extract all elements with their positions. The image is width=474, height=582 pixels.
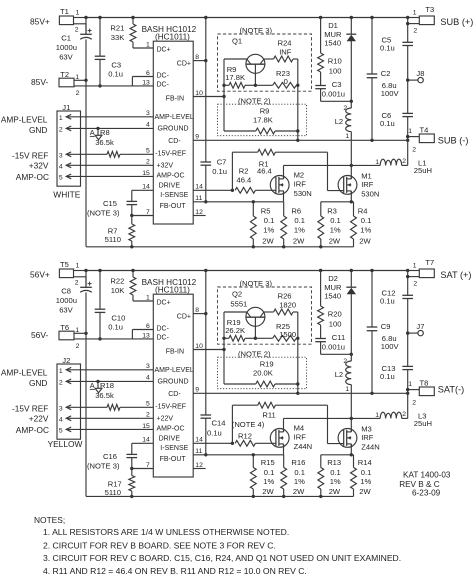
svg-text:5: 5 bbox=[59, 175, 63, 182]
svg-text:AMP-LEVEL: AMP-LEVEL bbox=[1, 367, 48, 377]
svg-text:2W: 2W bbox=[293, 487, 305, 496]
wire: CD-/output line to output terminal bbox=[193, 392, 409, 395]
svg-text:12: 12 bbox=[195, 462, 203, 469]
svg-text:12: 12 bbox=[195, 209, 203, 216]
svg-text:R16: R16 bbox=[291, 458, 305, 467]
resistor R15 0.1 1% 2W bbox=[250, 455, 274, 497]
svg-text:FB-IN: FB-IN bbox=[166, 349, 184, 356]
svg-text:2. CIRCUIT FOR REV B BOARD.: 2. CIRCUIT FOR REV B BOARD. SEE NOTE 3 F… bbox=[43, 540, 276, 550]
wire: J pin2 GND to IC pin 4 bbox=[66, 380, 153, 383]
svg-text:Q2: Q2 bbox=[232, 290, 242, 299]
resistor R1 46.4 (gate of M1) bbox=[232, 149, 343, 190]
inductor L2 bbox=[335, 354, 352, 418]
svg-text:63V: 63V bbox=[59, 53, 73, 62]
svg-text:1%: 1% bbox=[263, 225, 274, 234]
wire: switch node to inductor bbox=[284, 417, 381, 432]
resistor R3 0.1 1% 2W bbox=[318, 202, 341, 247]
wire: positive rail bbox=[84, 16, 409, 19]
wire: J pin1 AMP-LEVEL to IC pin 3 bbox=[66, 116, 153, 118]
svg-text:-15V-REF: -15V-REF bbox=[155, 404, 186, 411]
resistor R6 0.1 1% 2W bbox=[281, 202, 305, 247]
svg-text:DC+: DC+ bbox=[157, 47, 171, 54]
svg-text:5110: 5110 bbox=[105, 488, 121, 497]
svg-text:2: 2 bbox=[343, 105, 347, 112]
svg-text:FB-OUT: FB-OUT bbox=[160, 456, 187, 463]
svg-text:R18: R18 bbox=[100, 381, 114, 390]
svg-text:A: A bbox=[90, 381, 95, 390]
wire: FB-OUT pin 7 stub bbox=[132, 215, 154, 217]
svg-text:2W: 2W bbox=[262, 236, 274, 245]
svg-text:C3: C3 bbox=[332, 80, 342, 89]
svg-text:GROUND: GROUND bbox=[158, 379, 189, 386]
svg-text:9: 9 bbox=[195, 134, 199, 141]
svg-text:2W: 2W bbox=[329, 487, 341, 496]
svg-text:1: 1 bbox=[413, 263, 417, 270]
svg-text:SUB (-): SUB (-) bbox=[438, 135, 469, 145]
inductor L1 25uH bbox=[375, 140, 432, 175]
svg-text:100V: 100V bbox=[381, 342, 400, 351]
svg-text:7: 7 bbox=[146, 462, 150, 469]
svg-text:J8: J8 bbox=[416, 69, 424, 78]
svg-text:+22V: +22V bbox=[157, 416, 174, 423]
connector J2 bbox=[57, 356, 81, 439]
svg-text:2W: 2W bbox=[359, 487, 371, 496]
svg-text:WHITE: WHITE bbox=[53, 189, 80, 199]
IC U2 BASH HC1012 (HC1011) bbox=[142, 278, 203, 477]
resistor R4 0.1 1% 2W bbox=[351, 202, 372, 247]
svg-text:0: 0 bbox=[284, 77, 288, 86]
svg-text:14: 14 bbox=[142, 184, 150, 191]
svg-text:20.0K: 20.0K bbox=[253, 369, 273, 378]
capacitor C11 0.001u bbox=[315, 333, 351, 355]
svg-text:2: 2 bbox=[413, 280, 417, 287]
svg-text:5551: 5551 bbox=[230, 299, 247, 308]
svg-text:1: 1 bbox=[375, 159, 379, 166]
svg-text:GND: GND bbox=[29, 125, 47, 135]
svg-text:10K: 10K bbox=[111, 286, 125, 295]
wire: FB-OUT pin 12 stub bbox=[193, 215, 205, 217]
transistor Q1 bbox=[224, 37, 274, 86]
svg-text:M1: M1 bbox=[361, 171, 372, 180]
svg-text:0.1u: 0.1u bbox=[108, 322, 123, 331]
svg-text:SAT(-): SAT(-) bbox=[438, 384, 464, 394]
wire: negative rail down to ground rail bbox=[85, 80, 87, 247]
svg-text:0.1: 0.1 bbox=[264, 216, 275, 225]
svg-text:46.4: 46.4 bbox=[237, 176, 252, 185]
title block KAT 1400-03 bbox=[399, 470, 451, 497]
svg-text:2: 2 bbox=[59, 380, 63, 387]
svg-text:FB-IN: FB-IN bbox=[166, 96, 184, 103]
svg-text:2: 2 bbox=[413, 27, 417, 34]
svg-text:INF: INF bbox=[279, 48, 292, 57]
svg-text:R3: R3 bbox=[327, 206, 337, 215]
svg-text:1000u: 1000u bbox=[56, 43, 77, 52]
terminal T2 (85V-) bbox=[59, 70, 88, 97]
svg-text:2W: 2W bbox=[293, 236, 305, 245]
svg-text:0.1u: 0.1u bbox=[380, 296, 395, 305]
wire: DRIVE pin 14 line bbox=[193, 189, 234, 192]
svg-text:AMP-OC: AMP-OC bbox=[157, 173, 185, 180]
svg-text:T8: T8 bbox=[420, 379, 429, 388]
resistor R17 5110 bbox=[105, 469, 135, 499]
svg-text:NOTES;: NOTES; bbox=[34, 515, 65, 525]
svg-text:4: 4 bbox=[146, 374, 150, 381]
svg-text:R24: R24 bbox=[278, 38, 292, 47]
svg-text:9: 9 bbox=[195, 387, 199, 394]
svg-text:10: 10 bbox=[195, 90, 203, 97]
inductor L2 bbox=[335, 101, 352, 165]
svg-text:(NOTE 2): (NOTE 2) bbox=[238, 349, 271, 358]
svg-text:C9: C9 bbox=[381, 322, 391, 331]
capacitor C15 (NOTE 3) bbox=[87, 190, 153, 217]
svg-text:0.1: 0.1 bbox=[264, 468, 275, 477]
svg-text:0.1: 0.1 bbox=[294, 216, 305, 225]
svg-text:2: 2 bbox=[412, 399, 416, 406]
resistor R11 None (gate of M3) bbox=[232, 402, 343, 443]
transistor M2 530N bbox=[270, 171, 311, 199]
svg-text:(NOTE 3): (NOTE 3) bbox=[87, 208, 120, 217]
wire: I-SENSE pin 11 line bbox=[193, 191, 283, 204]
svg-text:1540: 1540 bbox=[324, 39, 341, 48]
svg-text:AMP-LEVEL: AMP-LEVEL bbox=[155, 114, 194, 121]
svg-text:DC+: DC+ bbox=[157, 300, 171, 307]
dashed box (NOTE 3) bbox=[218, 26, 312, 91]
svg-text:0.1: 0.1 bbox=[361, 216, 372, 225]
svg-text:17.8K: 17.8K bbox=[253, 116, 273, 125]
terminal T4 (SUB (-)) bbox=[406, 126, 434, 154]
svg-text:2: 2 bbox=[76, 90, 80, 97]
svg-text:530N: 530N bbox=[361, 189, 379, 198]
svg-text:-15V REF: -15V REF bbox=[12, 403, 48, 413]
svg-text:C7: C7 bbox=[217, 158, 227, 167]
inductor L3 25uH bbox=[375, 393, 432, 428]
svg-text:R22: R22 bbox=[110, 276, 124, 285]
svg-text:R21: R21 bbox=[110, 23, 124, 32]
svg-text:C8: C8 bbox=[61, 286, 71, 295]
svg-text:M2: M2 bbox=[294, 171, 305, 180]
svg-text:8: 8 bbox=[195, 307, 199, 314]
svg-text:4: 4 bbox=[59, 416, 63, 423]
diode D2 MUR 1540 bbox=[324, 271, 356, 356]
capacitor C7 0.1u bbox=[193, 18, 227, 204]
svg-text:0.1u: 0.1u bbox=[207, 429, 222, 438]
terminal T6 (56V-) bbox=[59, 323, 88, 350]
svg-text:A: A bbox=[90, 128, 95, 137]
svg-text:5: 5 bbox=[146, 401, 150, 408]
svg-text:2: 2 bbox=[412, 146, 416, 153]
svg-text:2: 2 bbox=[402, 158, 406, 165]
svg-text:2: 2 bbox=[146, 412, 150, 419]
svg-text:-15V-REF: -15V-REF bbox=[155, 151, 186, 158]
svg-text:R10: R10 bbox=[328, 57, 342, 66]
svg-text:6-23-09: 6-23-09 bbox=[412, 489, 441, 498]
wire: negative rail down to ground rail bbox=[85, 333, 87, 496]
svg-text:100: 100 bbox=[329, 320, 342, 329]
svg-text:(NOTE 3): (NOTE 3) bbox=[240, 26, 273, 35]
svg-text:C14: C14 bbox=[212, 419, 226, 428]
svg-text:+22V: +22V bbox=[29, 414, 49, 424]
svg-text:2: 2 bbox=[59, 127, 63, 134]
svg-text:1%: 1% bbox=[360, 225, 371, 234]
transistor M4 Z44N bbox=[270, 424, 312, 452]
svg-text:63V: 63V bbox=[59, 306, 73, 315]
svg-text:L2: L2 bbox=[335, 117, 343, 126]
svg-text:1: 1 bbox=[408, 381, 412, 388]
svg-text:Q1: Q1 bbox=[232, 37, 242, 46]
wire: J pin5 AMP-OC to IC pin 15 bbox=[66, 175, 153, 177]
svg-text:11: 11 bbox=[195, 448, 202, 455]
svg-text:14: 14 bbox=[195, 184, 203, 191]
svg-text:C15: C15 bbox=[103, 199, 117, 208]
wire: negative rail to IC pins 6/13 bbox=[74, 330, 153, 339]
svg-text:M3: M3 bbox=[361, 424, 372, 433]
resistor R13 0.1 1% 2W bbox=[318, 455, 341, 497]
svg-text:5110: 5110 bbox=[105, 235, 121, 244]
svg-text:IRF: IRF bbox=[361, 180, 374, 189]
wire: FB-OUT pin 7 stub bbox=[132, 468, 154, 470]
svg-text:0.1: 0.1 bbox=[330, 216, 341, 225]
svg-text:1: 1 bbox=[345, 386, 349, 393]
capacitor C1 1000u 63V bbox=[56, 18, 92, 81]
wire: M-source sense line right bbox=[321, 444, 354, 457]
svg-text:1%: 1% bbox=[330, 225, 341, 234]
svg-text:DC-: DC- bbox=[157, 82, 170, 89]
svg-text:GROUND: GROUND bbox=[158, 126, 189, 133]
svg-text:1: 1 bbox=[146, 41, 150, 48]
capacitor C13 0.1u bbox=[380, 364, 413, 381]
svg-text:1: 1 bbox=[375, 412, 379, 419]
svg-text:2: 2 bbox=[75, 27, 79, 34]
svg-text:T7: T7 bbox=[425, 258, 434, 267]
svg-text:4: 4 bbox=[146, 121, 150, 128]
svg-text:R8: R8 bbox=[100, 128, 110, 137]
svg-text:1500: 1500 bbox=[279, 330, 296, 339]
svg-text:(NOTE 3): (NOTE 3) bbox=[240, 279, 273, 288]
resistor R18 36.5k in -15V REF line bbox=[66, 381, 153, 410]
svg-text:15: 15 bbox=[142, 170, 150, 177]
terminal T7 (SAT (+)) bbox=[406, 258, 434, 287]
svg-text:IRF: IRF bbox=[361, 433, 374, 442]
wire: output vertical bbox=[407, 46, 409, 141]
svg-text:SAT (+): SAT (+) bbox=[440, 270, 471, 280]
svg-text:1: 1 bbox=[76, 262, 80, 269]
resistor R23 0 (NOTE 3) bbox=[255, 69, 297, 88]
svg-text:3: 3 bbox=[59, 405, 63, 412]
svg-text:0.1u: 0.1u bbox=[212, 167, 227, 176]
resistor R22 10K bbox=[110, 271, 153, 302]
test point J8 bbox=[406, 69, 424, 83]
svg-text:36.5k: 36.5k bbox=[95, 138, 114, 147]
svg-text:3: 3 bbox=[59, 152, 63, 159]
svg-text:11: 11 bbox=[195, 195, 202, 202]
svg-text:C3: C3 bbox=[111, 61, 121, 70]
resistor R9 17.8K (NOTE 2) bbox=[224, 97, 298, 134]
svg-text:IRF: IRF bbox=[294, 180, 307, 189]
wire: FB-OUT pin 12 stub bbox=[193, 468, 205, 470]
resistor R20 100 bbox=[318, 271, 342, 339]
svg-text:0.001u: 0.001u bbox=[322, 90, 345, 99]
svg-text:1: 1 bbox=[408, 128, 412, 135]
svg-text:7: 7 bbox=[146, 209, 150, 216]
svg-text:R13: R13 bbox=[327, 458, 341, 467]
wire: I-SENSE pin 11 line bbox=[193, 444, 283, 457]
transistor M1 530N bbox=[338, 171, 379, 198]
wire: J pin4 +22V to IC pin 2 bbox=[66, 417, 153, 419]
svg-text:2W: 2W bbox=[359, 236, 371, 245]
svg-text:4. R11 AND R12 = 46.4 ON REV: 4. R11 AND R12 = 46.4 ON REV B. R11 AND … bbox=[43, 566, 307, 576]
svg-text:1: 1 bbox=[59, 368, 63, 375]
svg-text:C2: C2 bbox=[381, 69, 391, 78]
svg-text:MUR: MUR bbox=[324, 283, 342, 292]
svg-text:(NOTE 3): (NOTE 3) bbox=[87, 461, 120, 470]
resistor R24 INF bbox=[274, 38, 298, 62]
svg-text:R19: R19 bbox=[260, 360, 274, 369]
svg-text:M4: M4 bbox=[294, 424, 305, 433]
svg-text:2W: 2W bbox=[329, 236, 341, 245]
svg-text:2: 2 bbox=[146, 159, 150, 166]
svg-text:D1: D1 bbox=[328, 21, 338, 30]
svg-text:C10: C10 bbox=[111, 314, 125, 323]
svg-text:C11: C11 bbox=[332, 333, 345, 342]
capacitor C16 (NOTE 3) bbox=[87, 443, 153, 470]
svg-text:530N: 530N bbox=[294, 189, 312, 198]
svg-text:YELLOW: YELLOW bbox=[48, 439, 83, 449]
svg-text:Z44N: Z44N bbox=[361, 442, 380, 451]
capacitor C5 0.1u bbox=[380, 18, 413, 53]
svg-text:CD-: CD- bbox=[168, 138, 181, 145]
svg-text:CD-: CD- bbox=[168, 391, 181, 398]
svg-text:I-SENSE: I-SENSE bbox=[160, 192, 188, 199]
svg-text:0.1u: 0.1u bbox=[380, 43, 395, 52]
svg-text:85V+: 85V+ bbox=[30, 17, 50, 27]
svg-text:T2: T2 bbox=[60, 70, 69, 79]
resistor R19 20.0K (NOTE 2) bbox=[224, 350, 298, 387]
capacitor C3 0.1u bbox=[95, 18, 123, 88]
svg-text:33K: 33K bbox=[111, 33, 125, 42]
svg-text:+32V: +32V bbox=[157, 163, 174, 170]
svg-text:46.4: 46.4 bbox=[257, 167, 272, 176]
svg-text:4: 4 bbox=[59, 163, 63, 170]
svg-text:6: 6 bbox=[146, 323, 150, 330]
svg-text:C16: C16 bbox=[103, 452, 117, 461]
svg-text:J7: J7 bbox=[416, 322, 424, 331]
capacitor C2 6.8u 100V bbox=[367, 18, 400, 141]
svg-text:DC-: DC- bbox=[157, 325, 170, 332]
wire: negative rail to IC pins 6/13 bbox=[74, 77, 153, 86]
terminal T5 (56V+) bbox=[59, 260, 86, 286]
capacitor C3 0.001u bbox=[315, 80, 351, 102]
svg-text:FB-OUT: FB-OUT bbox=[160, 203, 187, 210]
svg-text:R2: R2 bbox=[239, 166, 249, 175]
svg-text:2: 2 bbox=[75, 280, 79, 287]
resistor R9 17.8K (NOTE 3) bbox=[222, 59, 257, 88]
capacitor C9 6.8u 100V bbox=[367, 271, 400, 394]
svg-text:DRIVE: DRIVE bbox=[159, 436, 181, 443]
svg-text:1%: 1% bbox=[263, 477, 274, 486]
svg-text:R20: R20 bbox=[328, 310, 342, 319]
svg-text:13: 13 bbox=[142, 332, 150, 339]
dotted box (NOTE 2) bbox=[218, 96, 307, 135]
svg-text:I-SENSE: I-SENSE bbox=[160, 445, 188, 452]
svg-text:1%: 1% bbox=[294, 477, 305, 486]
svg-text:56V+: 56V+ bbox=[30, 270, 50, 280]
connector J1 bbox=[57, 103, 81, 186]
wire: switch node to inductor bbox=[284, 164, 381, 179]
svg-text:D2: D2 bbox=[328, 274, 338, 283]
svg-text:MUR: MUR bbox=[324, 30, 342, 39]
resistor R10 100 bbox=[318, 18, 342, 86]
terminal T8 (SAT(-)) bbox=[406, 379, 434, 407]
svg-text:3. CIRCUIT FOR REV C BOARD.: 3. CIRCUIT FOR REV C BOARD. C15, C16, R2… bbox=[43, 553, 401, 563]
svg-text:GND: GND bbox=[29, 378, 47, 388]
svg-text:T4: T4 bbox=[420, 126, 429, 135]
svg-text:36.5k: 36.5k bbox=[95, 391, 114, 400]
svg-text:R4: R4 bbox=[358, 206, 368, 215]
svg-text:3: 3 bbox=[146, 110, 150, 117]
resistor R5 0.1 1% 2W bbox=[250, 202, 274, 247]
resistor R8 36.5k in -15V REF line bbox=[66, 128, 153, 157]
svg-text:AMP-OC: AMP-OC bbox=[157, 426, 185, 433]
svg-text:KAT 1400-03: KAT 1400-03 bbox=[403, 470, 451, 479]
svg-text:Z44N: Z44N bbox=[294, 442, 313, 451]
svg-text:1820: 1820 bbox=[279, 301, 296, 310]
svg-text:0.1: 0.1 bbox=[330, 468, 341, 477]
svg-text:(NOTE 4): (NOTE 4) bbox=[232, 420, 265, 429]
wire: right vertical of NOTE boxes to CD- bbox=[296, 312, 299, 395]
wire: positive rail bbox=[84, 269, 409, 272]
wire: ground rail bbox=[86, 245, 354, 248]
svg-text:15: 15 bbox=[142, 423, 150, 430]
svg-text:R12: R12 bbox=[238, 431, 252, 440]
wire: ground rail bbox=[86, 495, 354, 498]
svg-text:0.1: 0.1 bbox=[294, 468, 305, 477]
svg-text:1: 1 bbox=[76, 9, 80, 16]
test point J7 bbox=[406, 322, 424, 336]
svg-text:R5: R5 bbox=[261, 206, 271, 215]
wire: J pin2 GND to IC pin 4 bbox=[66, 127, 153, 130]
svg-text:R9: R9 bbox=[260, 107, 270, 116]
resistor R12 None (gate of M4) bbox=[235, 431, 276, 446]
svg-text:+32V: +32V bbox=[29, 161, 49, 171]
resistor R21 33K bbox=[110, 18, 153, 49]
wire: M-source sense line right bbox=[321, 191, 354, 204]
svg-text:13: 13 bbox=[142, 79, 150, 86]
svg-text:10: 10 bbox=[195, 343, 203, 350]
svg-text:T1: T1 bbox=[60, 7, 69, 16]
svg-text:14: 14 bbox=[142, 437, 150, 444]
svg-text:0.001u: 0.001u bbox=[322, 343, 345, 352]
svg-text:1: 1 bbox=[59, 115, 63, 122]
svg-text:CD+: CD+ bbox=[177, 314, 191, 321]
svg-text:R15: R15 bbox=[261, 458, 275, 467]
wire: J pin4 +32V to IC pin 2 bbox=[66, 164, 153, 166]
wire: FB-IN pin 10 stub bbox=[193, 338, 226, 351]
svg-text:J2: J2 bbox=[62, 356, 70, 365]
svg-text:T6: T6 bbox=[60, 323, 69, 332]
svg-text:100V: 100V bbox=[381, 89, 400, 98]
svg-text:14: 14 bbox=[195, 437, 203, 444]
svg-text:25uH: 25uH bbox=[414, 419, 432, 428]
wire: J pin5 AMP-OC to IC pin 15 bbox=[66, 428, 153, 430]
svg-text:R26: R26 bbox=[278, 291, 292, 300]
resistor R14 0.1 1% 2W bbox=[351, 455, 372, 497]
ground flag A (J1) bbox=[90, 128, 102, 140]
svg-text:AMP-OC: AMP-OC bbox=[16, 425, 49, 435]
svg-text:2W: 2W bbox=[262, 487, 274, 496]
capacitor C6 0.1u bbox=[380, 111, 413, 128]
svg-text:(HC1011): (HC1011) bbox=[155, 32, 190, 41]
dashed box (NOTE 3) bbox=[218, 279, 312, 344]
